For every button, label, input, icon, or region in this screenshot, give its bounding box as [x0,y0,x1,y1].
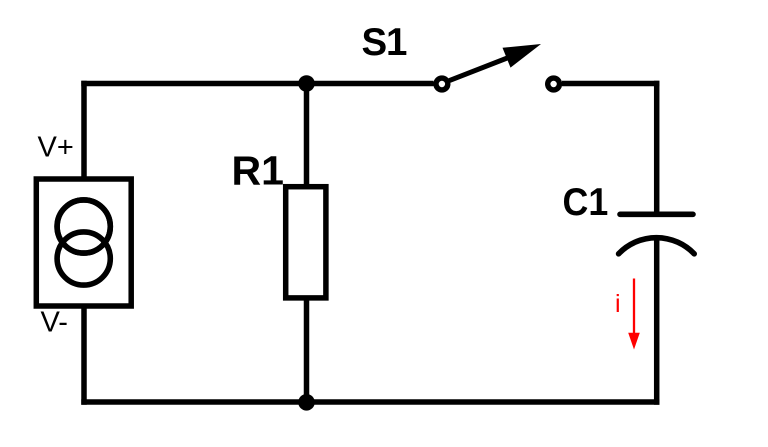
svg-text:R1: R1 [232,148,284,194]
switch S1 left terminal [436,78,448,90]
svg-text:C1: C1 [563,180,609,223]
junction top [298,75,315,92]
svg-text:i: i [615,290,621,318]
wire left side upper (corner to source top) [81,81,87,199]
wire right side lower (C1 arc to bottom corner) [654,241,660,405]
wire bottom [81,399,659,405]
wire middle branch upper (junction to R1) [304,84,310,187]
wire switch right terminal to top-right corner [562,81,659,87]
source box [36,179,131,306]
wire middle branch lower (R1 to bottom junction) [304,298,310,402]
source upper circle [57,200,110,253]
source upper circle overlap restroke [57,200,110,253]
capacitor C1 curved plate [619,238,695,254]
svg-text:S1: S1 [362,21,407,64]
wire right side upper (corner to C1 top plate) [654,81,660,212]
source lower circle [57,232,110,285]
current arrow head (red) [628,333,640,350]
resistor R1 [286,187,326,298]
svg-text:V+: V+ [38,132,74,164]
switch S1 right terminal [548,78,560,90]
junction bottom [298,394,315,411]
wire left side lower (source bottom to bottom wire) [81,286,87,405]
wire top-left to switch left terminal [81,81,433,87]
switch S1 lever [450,57,511,81]
svg-text:V-: V- [41,307,68,339]
current arrow shaft (red) [633,279,635,336]
capacitor C1 top plate [620,212,693,218]
switch S1 arrowhead [503,44,542,68]
